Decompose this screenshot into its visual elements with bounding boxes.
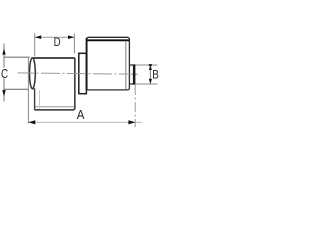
B extension line bottom: [136, 83, 158, 85]
bottom edge: [34, 109, 73, 111]
drum right rim line: [125, 41, 127, 90]
left shaft stub end face (ellipse), diameter C: [30, 58, 36, 89]
A left extension line: [27, 58, 29, 124]
bottom inner line: [35, 106, 74, 108]
A dimension line: [27, 121, 142, 123]
stub top edge: [130, 64, 136, 66]
A arrow left: [28, 120, 35, 124]
A right extension line (dash-dot): [134, 85, 136, 127]
left edge (below stub ellipse): [34, 89, 36, 110]
right edge: [73, 58, 75, 110]
connector ellipse-bottom to left edge: [32, 88, 35, 90]
B arrow down: [149, 79, 152, 84]
B top junction knob: [149, 64, 152, 66]
D dimension line: [35, 36, 74, 38]
D arrow right: [68, 35, 74, 39]
svg-text:A: A: [77, 107, 85, 122]
svg-text:C: C: [1, 66, 8, 81]
D right extension line: [73, 34, 75, 54]
C dimension line lower part: [3, 78, 5, 101]
stub bottom edge: [130, 83, 136, 85]
drum (large right roller body): [87, 37, 130, 90]
C bottom extension line: [3, 88, 28, 90]
drum top rim line (thick): [87, 39, 129, 41]
svg-text:B: B: [152, 69, 159, 81]
B extension line top: [136, 64, 158, 66]
axle centerline (dash-dot): [18, 73, 141, 74]
C top extension line: [4, 56, 30, 58]
D arrow left: [35, 35, 41, 39]
collar (center boss between rollers): [79, 53, 87, 93]
stub end face (thick bar): [133, 65, 136, 85]
drum left edge (thick): [86, 38, 88, 90]
faint left rim line: [39, 90, 41, 109]
C arrow up (outside, pointing up): [2, 48, 5, 54]
B arrow up: [149, 65, 152, 70]
A arrow right: [128, 120, 135, 124]
D left extension line: [34, 33, 36, 56]
C dimension line upper part: [3, 44, 5, 68]
C arrow down (outside, pointing down): [2, 90, 5, 97]
top edge: [33, 57, 75, 59]
B dimension line: [149, 65, 151, 83]
svg-text:D: D: [54, 35, 61, 49]
